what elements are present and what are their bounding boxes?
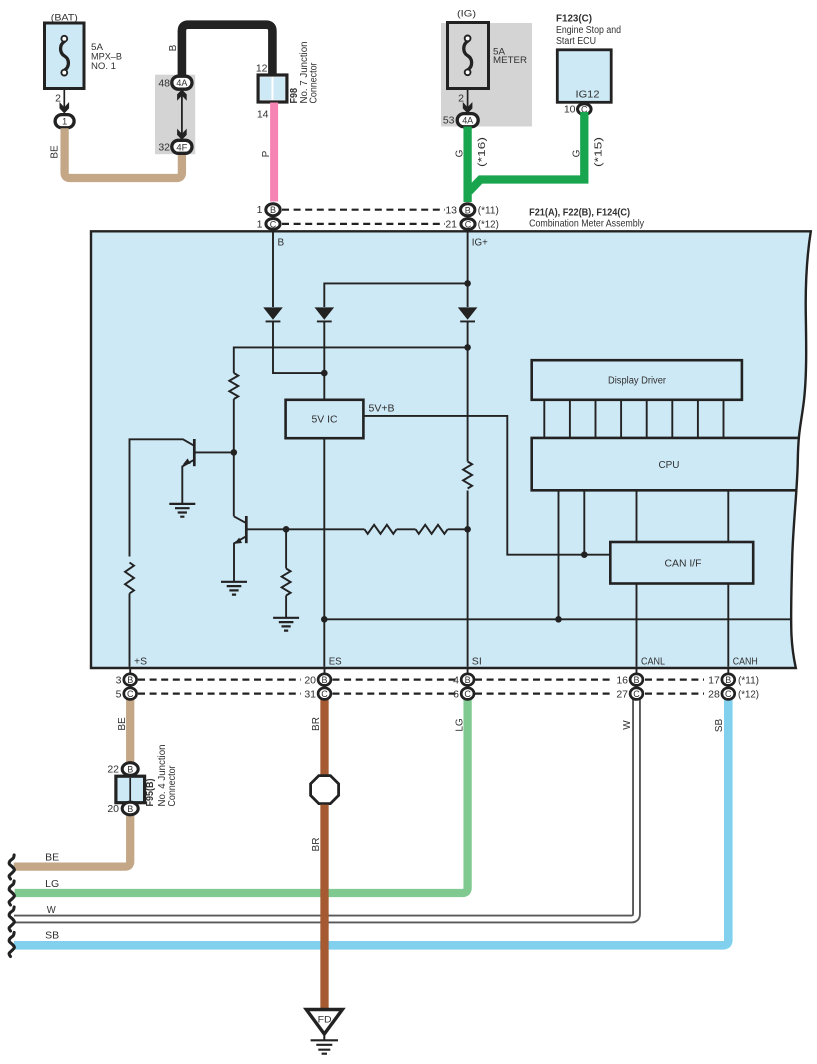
fuse 5A METER box bbox=[448, 23, 489, 89]
stub ES bbox=[324, 668, 326, 694]
svg-text:NO. 1: NO. 1 bbox=[91, 61, 116, 72]
terminal ovals bottom row B bbox=[124, 674, 735, 700]
svg-text:BR: BR bbox=[311, 717, 322, 731]
diode D3 bbox=[458, 307, 478, 319]
svg-text:CANL: CANL bbox=[641, 656, 665, 667]
connector gray block IG bbox=[441, 23, 532, 127]
oval 6(C) bbox=[461, 688, 474, 700]
wire IG+ branch to diode 2 bbox=[324, 283, 467, 307]
ECU box IG12 bbox=[557, 50, 611, 103]
svg-text:B: B bbox=[465, 205, 471, 215]
svg-text:16: 16 bbox=[616, 674, 628, 686]
svg-text:Connector: Connector bbox=[309, 62, 320, 104]
svg-text:B: B bbox=[725, 675, 731, 685]
svg-text:(*12): (*12) bbox=[738, 688, 759, 700]
svg-text:27: 27 bbox=[616, 688, 628, 700]
svg-text:Connector: Connector bbox=[167, 765, 178, 807]
resistor R3 on +S line bbox=[125, 563, 134, 594]
node IG+ wire into box bbox=[467, 232, 469, 307]
svg-text:FD: FD bbox=[318, 1015, 332, 1026]
wire diode1 output to diode2 line bbox=[273, 322, 324, 373]
svg-text:12: 12 bbox=[256, 63, 268, 75]
CPU pin to 5V+B node bbox=[583, 491, 585, 555]
harness squiggle W bbox=[9, 907, 14, 931]
svg-text:BE: BE bbox=[45, 853, 59, 864]
wire SB blue from CANH to edge bbox=[14, 699, 728, 945]
svg-text:21: 21 bbox=[445, 218, 457, 230]
dashed connector row B bbox=[138, 680, 704, 694]
svg-text:C: C bbox=[465, 219, 472, 229]
svg-text:(*12): (*12) bbox=[478, 218, 499, 230]
pin 2 arrow bbox=[463, 102, 473, 114]
harness squiggle LG bbox=[9, 881, 14, 905]
stub SI bbox=[467, 668, 469, 694]
svg-text:(IG): (IG) bbox=[457, 9, 476, 20]
ground FD stem and bars bbox=[323, 1034, 325, 1040]
wire CANH to box bottom bbox=[727, 584, 729, 667]
wire R6 to ground bbox=[285, 596, 287, 619]
svg-text:B: B bbox=[127, 804, 133, 814]
dashed connector line row B bbox=[282, 209, 445, 211]
svg-text:10: 10 bbox=[564, 104, 576, 116]
resistor R5 bbox=[416, 525, 448, 534]
resistor R6 bbox=[282, 569, 291, 596]
oval 3(B) bbox=[124, 674, 137, 686]
wire fuse to pin 2 bbox=[467, 89, 469, 109]
terminal oval 1(B) meter bbox=[272, 214, 274, 232]
dashed connector line row C bbox=[282, 223, 445, 225]
svg-text:C: C bbox=[633, 689, 640, 699]
oval 16(B) bbox=[630, 674, 643, 686]
svg-text:13: 13 bbox=[445, 204, 457, 216]
wire between R4 and R5 bbox=[397, 528, 416, 530]
wire +S column bbox=[129, 594, 131, 667]
svg-text:C: C bbox=[270, 219, 277, 229]
transistor Q1 base bar bbox=[193, 439, 196, 466]
Q1 emitter wire to ground bbox=[182, 460, 194, 504]
svg-text:B: B bbox=[321, 675, 327, 685]
svg-text:F123(C): F123(C) bbox=[556, 13, 592, 25]
junction dot CPU pin/ES horizontal bbox=[555, 616, 562, 623]
stub CANH bbox=[727, 668, 729, 694]
svg-text:17: 17 bbox=[708, 674, 720, 686]
display driver box bbox=[532, 360, 742, 400]
svg-text:METER: METER bbox=[493, 55, 527, 66]
ground Q2 bbox=[221, 582, 247, 595]
wire BE tan from F95 to edge bbox=[14, 815, 131, 867]
junction dot bus/IG+ bbox=[464, 344, 471, 351]
diode D1 bbox=[263, 307, 283, 319]
svg-text:20: 20 bbox=[304, 674, 316, 686]
svg-text:P: P bbox=[261, 150, 272, 157]
wire base node to resistor R6 bbox=[285, 529, 287, 568]
connector gray block 48/32 bbox=[155, 75, 195, 155]
Q2 emitter arrow bbox=[234, 538, 242, 544]
terminal oval 20(B) bbox=[122, 802, 138, 815]
svg-text:B: B bbox=[127, 675, 133, 685]
svg-text:1: 1 bbox=[257, 204, 263, 216]
svg-text:G: G bbox=[571, 149, 582, 157]
svg-text:(*11): (*11) bbox=[478, 204, 499, 216]
svg-text:IG+: IG+ bbox=[472, 238, 488, 249]
CPU box bbox=[532, 438, 799, 490]
pin numbers bottom rows bbox=[116, 674, 720, 700]
svg-text:(*16): (*16) bbox=[477, 137, 488, 167]
combination meter assembly box (torn right edge) bbox=[91, 231, 811, 668]
CAN I/F box bbox=[610, 542, 753, 584]
transistor Q2 collector diagonal bbox=[234, 516, 245, 522]
wire Q1 base to R1 node bbox=[196, 451, 234, 453]
wire diode2 output to 5V IC bbox=[323, 322, 325, 400]
resistor R4 bbox=[365, 525, 397, 534]
wire G green from 4A to meter bbox=[463, 127, 471, 203]
svg-text:28: 28 bbox=[708, 688, 720, 700]
svg-text:22: 22 bbox=[107, 764, 119, 776]
stub CANL bbox=[636, 668, 638, 694]
svg-text:Combination Meter Assembly: Combination Meter Assembly bbox=[529, 218, 645, 230]
oval 31(C) bbox=[318, 688, 331, 700]
junction dot IG+/diode2 branch bbox=[464, 280, 471, 287]
svg-text:LG: LG bbox=[45, 879, 59, 890]
svg-text:BE: BE bbox=[117, 717, 128, 731]
oval 27(C) bbox=[630, 688, 643, 700]
ground R6 bbox=[273, 618, 299, 631]
wire diode3 output down SI column bbox=[467, 322, 469, 462]
svg-text:SI: SI bbox=[472, 656, 482, 667]
wire fuse to pin 2 bbox=[63, 89, 65, 109]
svg-text:W: W bbox=[622, 720, 633, 730]
double arrow between 4A and 4F bbox=[181, 93, 183, 137]
svg-text:32: 32 bbox=[158, 142, 170, 154]
terminal oval 1(C) meter bbox=[266, 219, 280, 230]
pin 2 arrow bbox=[60, 102, 70, 114]
terminal oval 4A pin 48 bbox=[172, 76, 192, 89]
svg-text:2: 2 bbox=[55, 93, 61, 105]
svg-text:(*15): (*15) bbox=[594, 137, 605, 167]
wire bus to resistor R1 bbox=[234, 347, 468, 373]
junction connector F98 box bbox=[258, 75, 287, 102]
svg-text:20: 20 bbox=[107, 803, 119, 815]
Q1 emitter arrow bbox=[183, 458, 191, 464]
svg-text:6: 6 bbox=[453, 688, 459, 700]
svg-text:+S: +S bbox=[134, 656, 147, 667]
svg-text:B: B bbox=[465, 675, 471, 685]
svg-text:4A: 4A bbox=[176, 78, 187, 88]
noise filter octagon bbox=[311, 776, 339, 804]
display driver pins to CPU bbox=[544, 400, 723, 438]
wire ES column 5V IC to box bottom bbox=[323, 438, 325, 667]
svg-text:14: 14 bbox=[257, 109, 269, 121]
svg-text:F21(A), F22(B), F124(C): F21(A), F22(B), F124(C) bbox=[529, 206, 630, 218]
junction dot R5/SI bbox=[464, 526, 471, 533]
svg-text:(*11): (*11) bbox=[738, 674, 759, 686]
svg-text:1: 1 bbox=[257, 218, 263, 230]
svg-text:1: 1 bbox=[62, 117, 67, 127]
transistor Q2 base bar bbox=[245, 516, 248, 543]
wire BE tan from oval 1 to 4F bbox=[65, 128, 182, 178]
terminal oval 21(C) meter bbox=[461, 219, 475, 230]
svg-text:CAN I/F: CAN I/F bbox=[665, 559, 702, 570]
CPU pin to CAN I/F CANL bbox=[636, 491, 638, 543]
svg-text:ES: ES bbox=[329, 656, 342, 667]
fuse 5A MPX-B NO.1 box bbox=[45, 23, 85, 89]
svg-text:B: B bbox=[633, 675, 639, 685]
wire 5V+B from 5V IC to CAN I/F bbox=[363, 416, 610, 555]
5V IC box bbox=[286, 400, 364, 438]
fuse element symbol bbox=[61, 41, 69, 70]
wire R1 to Q2 collector bbox=[233, 399, 235, 516]
stub +S bbox=[129, 668, 131, 694]
svg-text:31: 31 bbox=[304, 688, 316, 700]
svg-text:5: 5 bbox=[116, 688, 122, 700]
wire SI column to box bottom bbox=[467, 491, 469, 667]
svg-text:4: 4 bbox=[453, 674, 459, 686]
oval 4(B) bbox=[461, 674, 474, 686]
svg-text:CPU: CPU bbox=[659, 460, 680, 471]
svg-text:BR: BR bbox=[311, 838, 322, 852]
CPU pin to CAN I/F CANH bbox=[727, 491, 729, 543]
svg-text:B: B bbox=[168, 44, 179, 51]
svg-text:4F: 4F bbox=[176, 142, 188, 152]
ground Q1 bbox=[169, 504, 195, 517]
svg-text:5V+B: 5V+B bbox=[369, 404, 395, 415]
wire LG green from SI to edge bbox=[15, 699, 468, 893]
oval 20(B) bbox=[318, 674, 331, 686]
svg-text:SB: SB bbox=[714, 719, 725, 733]
terminal oval 13(B) meter bbox=[467, 214, 469, 232]
ground FD triangle bbox=[306, 1010, 342, 1035]
svg-text:4A: 4A bbox=[462, 116, 473, 126]
Q2 emitter wire to ground bbox=[234, 537, 245, 582]
svg-text:F95(B): F95(B) bbox=[145, 779, 156, 807]
junction dot ES horizontal bbox=[321, 616, 328, 623]
wire BR brown from octagon to ground FD bbox=[320, 805, 328, 1010]
svg-text:G: G bbox=[455, 149, 466, 157]
svg-text:CANH: CANH bbox=[733, 656, 758, 667]
wire P pink from F98 to meter bbox=[270, 103, 278, 202]
svg-text:3: 3 bbox=[116, 674, 122, 686]
harness squiggle SB bbox=[9, 933, 14, 957]
junction connector F95 box bbox=[116, 776, 145, 803]
wire CANL to box bottom bbox=[636, 584, 638, 667]
wire BE tan from +S to F95 bbox=[126, 699, 134, 763]
svg-text:Display Driver: Display Driver bbox=[608, 376, 667, 387]
terminal oval 10(C) bbox=[578, 104, 592, 115]
junction dot diode1/diode2 bbox=[321, 370, 328, 377]
svg-text:BE: BE bbox=[50, 145, 61, 159]
svg-text:5V IC: 5V IC bbox=[312, 415, 338, 426]
wire G green from IG12 to junction bbox=[469, 112, 584, 192]
wire horizontal ES to torn edge bbox=[324, 618, 792, 620]
svg-text:B: B bbox=[127, 765, 133, 775]
wire B black from 4A to F98 bbox=[182, 25, 273, 77]
svg-text:48: 48 bbox=[158, 78, 170, 90]
svg-text:53: 53 bbox=[443, 115, 455, 127]
node B wire into box bbox=[272, 232, 274, 307]
svg-text:C: C bbox=[321, 689, 328, 699]
oval 5(C) bbox=[124, 688, 137, 700]
diode D2 bbox=[315, 307, 335, 319]
terminal oval 22(B) bbox=[122, 763, 138, 776]
terminal stubs below box bbox=[130, 668, 728, 694]
wire Q2 base to resistors bbox=[248, 528, 365, 530]
svg-text:Engine Stop and: Engine Stop and bbox=[556, 25, 621, 36]
junction dot R1/Q1 base bbox=[231, 449, 238, 456]
wire BR brown from ES to octagon bbox=[320, 699, 328, 776]
junction dot CPU pin/5V+B bbox=[581, 551, 588, 558]
resistor R2 on SI line bbox=[463, 462, 472, 489]
fuse element symbol bbox=[464, 41, 472, 70]
svg-text:B: B bbox=[278, 238, 285, 249]
CPU pin to ES horizontal bbox=[558, 491, 560, 620]
svg-text:SB: SB bbox=[45, 931, 59, 942]
wire +S to Q1 collector bbox=[130, 439, 195, 556]
svg-text:LG: LG bbox=[454, 718, 465, 732]
dashed connector row C bbox=[138, 692, 301, 694]
svg-text:W: W bbox=[47, 905, 57, 916]
terminal oval 1 bbox=[55, 115, 74, 128]
svg-text:C: C bbox=[464, 689, 471, 699]
terminal oval 4A pin 53 bbox=[457, 114, 478, 127]
svg-text:C: C bbox=[725, 689, 732, 699]
oval 17(B) bbox=[722, 674, 735, 686]
svg-text:B: B bbox=[270, 205, 276, 215]
svg-text:IG12: IG12 bbox=[576, 90, 600, 101]
wire R5 to SI line bbox=[448, 528, 468, 530]
resistor R1 bbox=[229, 373, 238, 399]
terminal oval 4F pin 32 bbox=[172, 140, 192, 153]
junction dot base/R6 bbox=[283, 526, 290, 533]
svg-text:C: C bbox=[127, 689, 134, 699]
svg-text:Start ECU: Start ECU bbox=[556, 36, 596, 47]
wire W white from CANL to edge bbox=[14, 699, 637, 919]
harness squiggle BE bbox=[9, 855, 14, 879]
oval 28(C) bbox=[722, 688, 735, 700]
